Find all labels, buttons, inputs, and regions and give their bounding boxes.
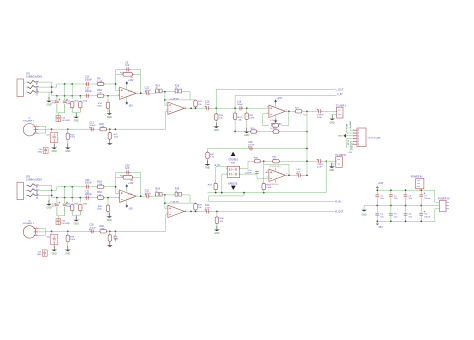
- resistor R23 2.49k: [246, 108, 248, 113]
- resistor R37 10k feedback IC3B: [195, 202, 197, 205]
- wire into TC AMP L: [322, 110, 337, 112]
- wire resistor merge: [72, 111, 80, 113]
- wire cap merge to CH-GND box 2: [57, 215, 65, 217]
- wire bias columns: [64, 84, 66, 99]
- svg-text:GND: GND: [52, 253, 57, 255]
- svg-text:2: 2: [118, 198, 119, 200]
- wire between pads: [163, 91, 175, 93]
- svg-text:3: 3: [36, 234, 37, 236]
- wire to gain pads 2: [150, 195, 156, 196]
- svg-text:2.49k: 2.49k: [99, 126, 105, 128]
- wire IC2B noninverting stub: [266, 171, 269, 173]
- svg-text:SLV: SLV: [37, 194, 39, 199]
- wire inverting input from XLR row: [166, 110, 168, 112]
- capacitor C23 10uF output 2: [207, 209, 209, 213]
- wire POWER IN to rail: [419, 189, 421, 190]
- svg-text:GND: GND: [65, 151, 70, 153]
- capacitor C14 100u: [56, 99, 58, 113]
- resistor R36 100k bias to ground 2: [107, 197, 109, 199]
- svg-text:2: 2: [118, 95, 119, 97]
- jumper C24 CH-GND box: [56, 219, 60, 225]
- svg-text:+15V: +15V: [128, 183, 134, 185]
- node row Ab taps: [64, 186, 66, 188]
- svg-text:100nF: 100nF: [145, 193, 152, 195]
- op-amp IC2B: [269, 169, 286, 181]
- resistor R11 100k: [71, 99, 73, 112]
- resistor R45 10k top row: [273, 160, 279, 163]
- wire row B: [52, 95, 120, 97]
- svg-text:3: 3: [118, 192, 119, 194]
- wire LP volume pin6: [352, 144, 354, 147]
- svg-text:1.0M: 1.0M: [97, 81, 102, 83]
- capacitor C26 100nF row3b: [91, 229, 93, 233]
- svg-text:100uF: 100uF: [424, 216, 431, 218]
- ground GND R16: [108, 109, 110, 113]
- wire feedback left riser 2: [116, 172, 120, 193]
- supply +15V IC2A: [275, 103, 277, 107]
- node L_OUT bias: [215, 107, 217, 109]
- capacitor C5 10n -rail: [390, 206, 392, 214]
- svg-text:100nF: 100nF: [145, 90, 152, 92]
- ground GND R18: [215, 123, 217, 127]
- resistor R44 1k top row: [254, 160, 260, 163]
- svg-text:GND: GND: [244, 135, 249, 137]
- wire into TC AMP R: [322, 160, 336, 162]
- ground GND R21: [109, 139, 111, 143]
- wire IC1B noninverting riser: [165, 92, 168, 106]
- svg-text:100nF: 100nF: [85, 78, 92, 81]
- svg-text:C26: C26: [89, 224, 94, 227]
- ground GND power rail: [363, 206, 365, 210]
- wire TC AMP R ground pin: [332, 164, 336, 165]
- resistor R13 1M feedback: [116, 73, 141, 75]
- resistor R25 1k row131: [251, 130, 257, 133]
- svg-text:GND: GND: [65, 253, 70, 255]
- ground GND R38: [216, 226, 218, 230]
- wire IC3A output: [136, 195, 146, 197]
- resistor R29 1.0M row Ab: [97, 185, 103, 188]
- ground GND bias: [75, 113, 77, 117]
- resistor R39 100k XLR2 bias: [67, 231, 69, 235]
- ground GND R41: [109, 242, 111, 246]
- svg-text:C18: C18: [237, 101, 242, 104]
- wire IC2A inverting input: [263, 113, 269, 115]
- wire LP volume pin1 L_OUT: [350, 122, 354, 130]
- wire row A riser: [52, 84, 116, 87]
- ground GND LP volume: [346, 135, 354, 137]
- svg-text:2: 2: [36, 128, 37, 130]
- wire to input ground: [48, 92, 50, 99]
- wire row3b XLR input: [46, 230, 166, 232]
- wire XLR2 pins to row3b: [39, 229, 46, 232]
- connector JP2 3.5mm audio jack: [17, 182, 24, 200]
- resistor R38 10k to ground 2: [216, 211, 218, 217]
- node jack2 common: [51, 189, 53, 191]
- svg-text:GND: GND: [74, 120, 79, 122]
- supply -15V rail flag: [376, 221, 378, 224]
- wire net L_IN: [235, 96, 336, 109]
- wire LP volume pin4 R_IN: [347, 139, 354, 148]
- svg-text:GND: GND: [214, 130, 219, 132]
- svg-text:GND: GND: [107, 220, 112, 222]
- svg-text:POWER IN: POWER IN: [411, 177, 423, 179]
- supply -15V IC2A: [275, 116, 277, 120]
- svg-text:GND: GND: [74, 223, 79, 225]
- op-amp IC2A: [269, 105, 286, 117]
- capacitor C33 10uF to amp R: [319, 159, 321, 163]
- ground GND SJ1: [53, 144, 55, 148]
- svg-text:3: 3: [166, 104, 167, 106]
- resistor R12 100k: [79, 99, 81, 112]
- svg-text:C13: C13: [89, 122, 94, 125]
- svg-text:+15V: +15V: [128, 80, 134, 82]
- wire to gain pads: [150, 92, 156, 94]
- ground GND R39: [67, 246, 69, 250]
- svg-text:LP-VOLUME: LP-VOLUME: [368, 138, 381, 140]
- connector X2 XLR: [23, 226, 35, 238]
- pad R14 1k: [156, 89, 159, 93]
- resistor R31 100k: [71, 202, 73, 215]
- resistor R42 4.7k to ground: [207, 148, 209, 152]
- wire -rail to POWER OUT: [435, 209, 440, 222]
- resistor R24 1k feedback IC2A: [272, 124, 278, 127]
- svg-text:+15V: +15V: [277, 98, 283, 100]
- svg-text:100u: 100u: [51, 103, 57, 105]
- svg-text:R29: R29: [97, 180, 102, 183]
- capacitor C3 10n +rail: [405, 190, 407, 195]
- arrow stereo up: [231, 152, 236, 156]
- svg-text:3: 3: [36, 132, 37, 134]
- svg-text:L_IN: L_IN: [347, 124, 349, 129]
- wire feedback cap branch IC1A: [116, 68, 141, 70]
- svg-text:10uF: 10uF: [205, 207, 211, 209]
- svg-text:2: 2: [36, 231, 37, 233]
- resistor R33 1M feedback: [116, 176, 141, 178]
- node jack common: [51, 86, 53, 88]
- wire XLR pins to row3: [39, 126, 46, 129]
- resistor R27 100 output IC2A: [295, 110, 301, 113]
- wire C30 to inverting input: [257, 175, 269, 179]
- wire +rail to POWER OUT: [435, 190, 440, 202]
- svg-text:100nF: 100nF: [237, 104, 244, 106]
- wire switch left pin2: [222, 173, 227, 175]
- node row3b taps: [51, 230, 53, 232]
- wire switch top row: [208, 147, 308, 149]
- connector X1 XLR: [23, 124, 35, 136]
- ground GND SJ2: [53, 246, 55, 250]
- wire inverting input from XLR row 2: [166, 214, 168, 216]
- wire R_IN to switch: [216, 167, 228, 169]
- ground GND R19: [67, 144, 69, 148]
- svg-text:2.49k: 2.49k: [266, 187, 272, 189]
- wire ground reference row 131: [235, 131, 307, 133]
- ground GND R42: [207, 160, 209, 164]
- capacitor C30 100nF to IC2B: [255, 172, 259, 174]
- svg-text:GND: GND: [205, 168, 210, 170]
- capacitor C29 1nF feedback: [127, 170, 129, 174]
- capacitor C13 100nF row3: [91, 127, 93, 131]
- wire bias columns 2: [64, 187, 66, 202]
- svg-text:100nF: 100nF: [85, 182, 92, 185]
- svg-text:GND: GND: [329, 170, 334, 172]
- wire R_IN riser to bottom row: [215, 167, 217, 184]
- arrow bridge down: [231, 186, 236, 190]
- capacitor C15 100u: [64, 99, 66, 113]
- op-amp IC3A: [120, 190, 137, 202]
- resistor R10 1.0k row B: [97, 94, 103, 97]
- svg-text:C12: C12: [145, 86, 150, 89]
- capacitor C16 10uF output: [207, 106, 209, 110]
- capacitor C18 100nF stage3: [240, 106, 242, 110]
- wire to L_OUT node: [210, 107, 236, 109]
- ground GND TC AMP L: [331, 115, 333, 119]
- wire feedback left riser: [116, 69, 120, 90]
- resistor R32 100k: [79, 202, 81, 215]
- wire jack2 tip: [38, 185, 51, 197]
- svg-text:-15V: -15V: [128, 209, 133, 211]
- svg-text:3: 3: [166, 207, 167, 209]
- wire feedback loop IC2A: [263, 114, 269, 126]
- wire to input ground 2: [48, 195, 50, 202]
- capacitor C20 100nF row Ab: [86, 185, 88, 189]
- svg-text:GND: GND: [107, 117, 112, 119]
- capacitor C17 100nF row B: [86, 94, 88, 98]
- jumper SJ1 box: [51, 129, 53, 132]
- svg-text:1uF: 1uF: [296, 171, 300, 173]
- capacitor C2 10n +rail: [390, 190, 392, 195]
- wire row3 XLR input: [46, 128, 166, 130]
- wire TC AMP L ground pin: [332, 115, 336, 118]
- wire IC2B top row: [248, 160, 318, 162]
- wire between pads 2: [163, 194, 175, 196]
- svg-text:100nF: 100nF: [245, 173, 252, 175]
- connector TC AMP L: [337, 107, 344, 118]
- wire GND rail: [364, 205, 437, 207]
- node row3 taps: [51, 128, 53, 130]
- ground GND R36: [108, 212, 110, 216]
- wire row Ab riser: [52, 187, 116, 191]
- wire net R_OUT: [210, 210, 335, 212]
- svg-text:100u: 100u: [51, 206, 57, 208]
- svg-text:1: 1: [36, 227, 37, 229]
- connector LP VOLUME header: [357, 128, 366, 146]
- svg-text:CH-GND: CH-GND: [61, 120, 70, 122]
- node feedback row Ab: [115, 186, 117, 188]
- svg-text:3.5MM AUDIO: 3.5MM AUDIO: [26, 75, 42, 78]
- svg-text:GND: GND: [38, 151, 43, 153]
- resistor R43 10k: [214, 183, 217, 189]
- svg-text:L_OUT: L_OUT: [350, 120, 352, 127]
- wire feedback row IC1B: [165, 99, 196, 101]
- svg-text:R_OUT: R_OUT: [350, 143, 352, 151]
- svg-text:1: 1: [36, 125, 37, 127]
- jumper C14 CH-GND box: [56, 116, 60, 122]
- svg-text:POWER IN: POWER IN: [438, 198, 450, 200]
- svg-text:2.49k: 2.49k: [249, 117, 255, 119]
- svg-text:1M: 1M: [130, 77, 133, 79]
- svg-text:CH-GND: CH-GND: [61, 223, 70, 225]
- resistor R17 10k feedback IC1B: [195, 99, 197, 102]
- wire SJ2 to ground: [53, 245, 55, 249]
- svg-text:GND: GND: [362, 214, 367, 216]
- resistor R26 1k row131: [273, 130, 279, 133]
- svg-text:BRIDGE: BRIDGE: [228, 183, 238, 186]
- node bridge tie: [306, 131, 308, 133]
- wire row Bb: [52, 197, 120, 199]
- svg-text:STEREO: STEREO: [228, 158, 238, 161]
- svg-text:GND: GND: [46, 208, 51, 210]
- svg-text:GND: GND: [330, 122, 335, 124]
- wire IC2B inverting leg: [263, 164, 265, 183]
- svg-text:C22: C22: [145, 189, 150, 192]
- svg-text:10uF: 10uF: [205, 104, 211, 106]
- svg-text:IC2B 100: IC2B 100: [270, 184, 279, 186]
- wire IC2B output: [285, 174, 297, 176]
- wire stage3 input caps: [235, 107, 269, 109]
- node row B taps: [56, 95, 58, 97]
- capacitor C21 100nF row Bb: [86, 196, 88, 200]
- svg-text:100nF: 100nF: [85, 90, 92, 93]
- node row Bb taps: [56, 197, 58, 199]
- wire SJ1 to ground: [53, 143, 55, 147]
- wire GND rail to POWER OUT: [437, 205, 440, 207]
- wire switch right pin bottom to C30: [240, 170, 257, 174]
- capacitor C19 10uF to amp L: [319, 109, 321, 113]
- svg-text:IC3B 3B: IC3B 3B: [171, 202, 180, 204]
- wire feedback right riser 2: [140, 172, 142, 196]
- resistor R18 10k to ground: [215, 108, 217, 114]
- op-amp IC1B: [168, 102, 185, 114]
- wire bridge vertical: [306, 111, 308, 175]
- wire IC1A output: [136, 92, 146, 94]
- svg-text:R_IN: R_IN: [347, 140, 349, 145]
- svg-text:-15V: -15V: [128, 106, 133, 108]
- pad R15 1k: [175, 89, 178, 93]
- svg-text:2: 2: [267, 177, 268, 179]
- wire IC2A output: [285, 110, 295, 112]
- svg-text:-15V: -15V: [378, 227, 383, 229]
- svg-text:1nF: 1nF: [125, 167, 130, 170]
- resistor R40 2.49k row3b: [100, 230, 106, 233]
- wire bridge return to switch row: [325, 161, 327, 192]
- capacitor C7 100uF +rail: [420, 190, 422, 195]
- wire LP volume pin2 L_IN: [347, 124, 354, 133]
- wire jack ring: [38, 86, 51, 88]
- wire row into IC1B feedback: [182, 92, 190, 100]
- node row A taps: [64, 83, 66, 85]
- svg-text:2.49k: 2.49k: [99, 229, 105, 231]
- resistor R16 100k bias to ground: [107, 95, 109, 97]
- wire IC3B noninverting riser: [165, 195, 168, 209]
- supply -15V IC2B: [275, 180, 277, 183]
- capacitor C12 100nF output coupling: [147, 91, 149, 95]
- wire IC1B output row: [184, 107, 205, 109]
- svg-text:GND: GND: [52, 151, 57, 153]
- wire C32 to bridge node: [301, 174, 307, 176]
- svg-text:100nF: 100nF: [89, 125, 96, 127]
- capacitor C9 1nF feedback: [127, 67, 129, 71]
- capacitor C8 100uF -rail: [420, 206, 422, 214]
- capacitor C27 100n row3b bias: [114, 231, 116, 236]
- wire jack2 ring: [38, 189, 51, 191]
- svg-text:100nF: 100nF: [85, 193, 92, 196]
- wire feedback cap branch IC3A: [116, 171, 141, 173]
- capacitor C1 10n +rail: [376, 190, 378, 195]
- svg-text:100nF: 100nF: [89, 227, 96, 229]
- svg-text:3: 3: [118, 89, 119, 91]
- wire feedback row IC2B: [264, 161, 289, 175]
- svg-text:1nF: 1nF: [125, 64, 130, 67]
- wire jack sleeve: [38, 91, 51, 93]
- capacitor C10 100nF row A: [86, 82, 88, 86]
- flag CH-GND: [43, 147, 48, 153]
- resistor R30 1.0k row Bb: [97, 196, 103, 199]
- svg-text:C16: C16: [205, 101, 210, 104]
- svg-text:GND: GND: [37, 254, 42, 256]
- jumper SJ2 box: [51, 231, 53, 234]
- svg-text:10uF: 10uF: [317, 166, 323, 168]
- connector JP1 3.5mm audio jack: [17, 79, 24, 97]
- resistor R9 1.0M row A: [97, 82, 103, 85]
- svg-text:1.0M: 1.0M: [97, 184, 102, 186]
- capacitor C28 100nF switch: [250, 146, 252, 150]
- wire IC2A output to TC AMP L: [302, 110, 318, 112]
- connector POWER OUT: [440, 200, 447, 212]
- wire jack tip to node: [38, 82, 51, 96]
- node row3 bias: [109, 128, 111, 130]
- capacitor C25 100u: [64, 202, 66, 216]
- ground GND bias 2: [75, 216, 77, 220]
- wire -15V rail: [377, 220, 435, 222]
- resistor R21 100k row3 bias: [109, 129, 111, 133]
- node feedback row A: [115, 83, 117, 85]
- svg-text:100uF: 100uF: [424, 198, 431, 200]
- wire feedback row IC3B: [165, 202, 196, 204]
- wire net L_OUT: [216, 89, 334, 108]
- svg-text:RNG: RNG: [37, 189, 39, 194]
- svg-text:RNG: RNG: [37, 86, 39, 91]
- capacitor C24 100u: [56, 202, 58, 216]
- svg-text:(C31 47 pF): (C31 47 pF): [269, 166, 280, 168]
- svg-text:3.5MM AUDIO: 3.5MM AUDIO: [26, 179, 42, 182]
- wire net R_IN: [209, 193, 335, 202]
- svg-text:100nF: 100nF: [248, 145, 255, 147]
- supply +15V IC1A: [126, 85, 128, 89]
- op-amp IC3B: [168, 205, 185, 217]
- supply +15V IC3A: [126, 188, 128, 192]
- svg-text:IC1B 3B: IC1B 3B: [171, 98, 180, 100]
- wire row into IC3B feedback: [182, 195, 190, 203]
- svg-text:GND: GND: [338, 136, 343, 138]
- svg-text:IC2A 100: IC2A 100: [270, 119, 279, 122]
- wire LP volume pin5 R_OUT: [350, 141, 354, 150]
- ground input GND: [48, 97, 50, 101]
- connector TC AMP R: [336, 157, 343, 168]
- svg-text:L_IN: L_IN: [337, 93, 342, 96]
- svg-text:IC1A: IC1A: [128, 90, 133, 93]
- ground GND TC AMP R: [331, 163, 333, 167]
- svg-text:+15V: +15V: [348, 152, 353, 154]
- wire feedback right riser: [140, 69, 142, 93]
- supply -15V IC1A: [126, 97, 128, 101]
- op-amp IC1A: [120, 87, 137, 99]
- ground input GND 2: [48, 200, 50, 204]
- flag CH-GND 2: [42, 250, 47, 256]
- resistor R46 2.49k: [262, 183, 265, 189]
- svg-text:10uF: 10uF: [317, 117, 323, 119]
- svg-text:TC AMP R: TC AMP R: [335, 154, 346, 157]
- resistor R19 100k XLR bias: [67, 129, 69, 133]
